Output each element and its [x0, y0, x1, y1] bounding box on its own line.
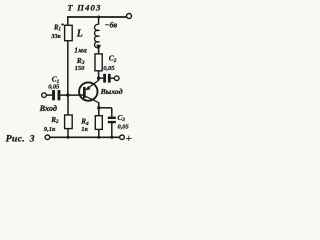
current direction arrow 1ma	[96, 45, 101, 51]
emitter arrow head	[86, 86, 91, 90]
capacitor C1 plates	[52, 90, 55, 100]
wire: R3 bottom to collector node	[98, 71, 100, 81]
wire: C2 left lead	[99, 77, 104, 79]
terminal: top right -6v	[127, 14, 132, 19]
wire: R4 to minus rail	[98, 129, 100, 137]
junction node: rail R2	[67, 136, 70, 139]
capacitor C3 plates	[108, 117, 116, 119]
wire: C3 top lead	[111, 108, 113, 117]
svg-text:−6в: −6в	[105, 20, 118, 29]
svg-text:+: +	[125, 131, 132, 145]
junction node: top rail / coil	[97, 16, 100, 19]
svg-text:0,05: 0,05	[48, 83, 60, 90]
wire: R2 bottom to minus rail	[67, 129, 69, 138]
wire: C2 right lead to output terminal	[111, 77, 115, 79]
resistor R3 body	[95, 54, 102, 71]
svg-text:L: L	[76, 28, 83, 39]
transistor emitter lead (arrow)	[86, 80, 99, 90]
svg-text:Рис.: Рис.	[6, 133, 25, 144]
junction node: rail R4	[97, 136, 100, 139]
svg-text:Вход: Вход	[39, 104, 57, 113]
svg-text:Выход: Выход	[100, 87, 123, 96]
wire: C3 bottom lead	[111, 123, 113, 137]
wire: R2 top from base node	[67, 95, 69, 115]
wire: left branch top segment	[67, 16, 69, 25]
junction node: base	[66, 93, 69, 96]
svg-text:33к: 33к	[50, 33, 61, 40]
resistor R2 body	[65, 115, 73, 129]
transistor T circle	[79, 82, 97, 100]
wire: R1 bottom down to base node	[67, 41, 69, 95]
svg-text:3: 3	[29, 133, 35, 144]
svg-text:0,05: 0,05	[103, 65, 115, 72]
junction node: rail C3	[110, 136, 113, 139]
wire: node down to R4	[98, 108, 100, 116]
svg-text:Т П403: Т П403	[67, 3, 101, 13]
wire: top supply rail	[67, 16, 126, 18]
wire: coil to R3	[98, 48, 100, 54]
svg-text:1ма: 1ма	[74, 47, 87, 55]
svg-text:9,1к: 9,1к	[44, 126, 56, 133]
wire: node to C3	[99, 107, 112, 109]
capacitor C2 plates	[103, 74, 106, 83]
svg-text:1к: 1к	[81, 126, 88, 133]
transistor base bar	[83, 87, 86, 98]
wire: bottom rail	[50, 136, 120, 138]
wire: base lead from C1	[60, 94, 83, 96]
wire: collector down to emitter node	[98, 102, 100, 108]
wire: input lead	[46, 94, 52, 96]
terminal: output	[114, 76, 119, 81]
junction node: collector/C2	[97, 77, 100, 80]
inductor L coil	[95, 24, 99, 47]
paper background	[0, 0, 150, 150]
resistor R4 body	[95, 116, 102, 130]
svg-text:0,05: 0,05	[118, 123, 130, 130]
terminal: bottom left	[45, 135, 50, 140]
transistor collector lead	[86, 96, 99, 102]
terminal: input	[42, 93, 47, 98]
junction node: emitter	[97, 106, 100, 109]
resistor R1 body	[65, 25, 73, 40]
svg-text:150: 150	[75, 65, 86, 72]
terminal: bottom right plus	[120, 135, 125, 140]
wire: inductor branch from top rail	[98, 17, 100, 25]
